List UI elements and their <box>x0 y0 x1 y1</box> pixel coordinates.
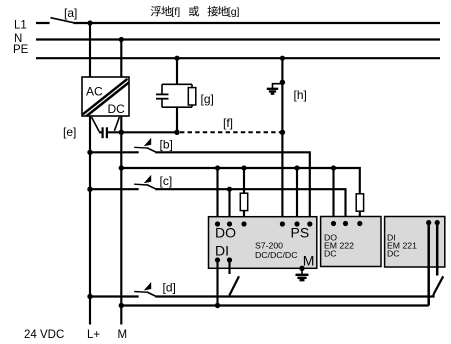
svg-text:[a]: [a] <box>64 6 77 20</box>
resistor R2 <box>356 194 363 211</box>
switch [c] <box>134 175 155 189</box>
svg-text:[f]: [f] <box>171 6 180 18</box>
DI input switch blade <box>229 276 239 295</box>
svg-text:DC: DC <box>387 249 400 259</box>
wire RC to f node <box>176 107 178 132</box>
node f right <box>280 130 285 135</box>
svg-text:AC: AC <box>86 85 103 99</box>
wire PE bus <box>36 57 440 59</box>
svg-text:M: M <box>303 252 315 268</box>
PSU AC/DC converter box U1 <box>82 77 129 116</box>
wire L1 to PSU <box>89 23 91 77</box>
box1 terminal dots <box>215 221 220 226</box>
PLC box1 S7-200 <box>209 217 317 269</box>
PLC box3 EM221 <box>385 217 445 268</box>
DI input switch stub <box>228 260 230 274</box>
wire [c] to EM222 <box>90 189 346 223</box>
switch [b] <box>134 138 155 152</box>
node M bottom <box>119 303 124 308</box>
branch DO1 <box>215 165 220 170</box>
node f left <box>174 130 179 135</box>
node PE junction h <box>280 56 285 61</box>
svg-text:[c]: [c] <box>160 174 173 188</box>
box3 DI wires <box>429 223 438 306</box>
svg-text:L1: L1 <box>14 20 27 32</box>
box3 terminal dots <box>426 220 431 225</box>
svg-text:[b]: [b] <box>160 138 173 152</box>
dashed link [f] <box>180 131 282 133</box>
svg-text:[d]: [d] <box>163 281 176 295</box>
switch [d] <box>134 282 155 296</box>
wire [b] to PS <box>90 152 310 224</box>
wire M mid to PS <box>121 168 359 224</box>
svg-text:PE: PE <box>13 44 29 56</box>
svg-text:L+: L+ <box>87 329 100 341</box>
svg-text:DI: DI <box>215 242 229 258</box>
node DI drop junction <box>215 303 220 308</box>
svg-text:DC/DC/DC: DC/DC/DC <box>255 250 297 260</box>
branch fused R1 <box>241 165 246 170</box>
wire L+ rail <box>89 116 91 325</box>
wire M rail <box>120 116 122 325</box>
node cap to M rail <box>119 130 124 135</box>
node L1 junction <box>87 20 92 25</box>
node PE junction g <box>174 56 179 61</box>
svg-text:PS: PS <box>291 224 310 240</box>
wire N to PSU <box>120 40 122 78</box>
svg-text:[g]: [g] <box>228 6 240 18</box>
RC snubber [g] <box>162 84 192 107</box>
wire M bottom to EM221 <box>121 304 428 306</box>
node mid on M rail <box>119 165 124 170</box>
svg-text:[f]: [f] <box>223 116 233 130</box>
wire cap node to g node <box>121 131 177 133</box>
header text floating-ground CJK <box>151 6 228 16</box>
wire L1 bus <box>36 22 440 24</box>
EM221 input switch blade <box>434 276 444 294</box>
box2 terminal dots <box>331 221 336 226</box>
resistor R1 <box>240 193 247 210</box>
switch [a] <box>51 18 75 23</box>
svg-text:DO: DO <box>215 224 236 240</box>
branch EM222 DO <box>331 165 336 170</box>
svg-text:[h]: [h] <box>294 88 307 102</box>
ground [h] <box>273 84 283 88</box>
svg-text:[g]: [g] <box>201 92 214 106</box>
wire L+ bottom [d] <box>90 294 434 297</box>
svg-text:24 VDC: 24 VDC <box>24 329 64 341</box>
wire N bus <box>36 38 440 40</box>
M ground node under box1 <box>299 266 304 271</box>
branch PS2 <box>294 165 299 170</box>
branch DO2 from c wire <box>227 187 232 192</box>
node b on L+ rail <box>87 150 92 155</box>
capacitor C[e] <box>92 117 120 132</box>
svg-text:S7-200: S7-200 <box>255 240 283 250</box>
svg-text:DC: DC <box>108 102 126 116</box>
node N junction <box>119 37 124 42</box>
wire PE to RC network <box>176 58 178 84</box>
svg-text:[e]: [e] <box>63 125 76 139</box>
PLC box2 EM222 <box>321 217 381 267</box>
node d on L+ rail <box>87 294 92 299</box>
svg-text:M: M <box>118 329 128 341</box>
svg-text:DC: DC <box>324 249 337 259</box>
wire PE drop to PS terminal <box>281 58 283 224</box>
DI drop 1 to M wire <box>216 260 218 306</box>
node c on L+ rail <box>87 187 92 192</box>
ground M <box>301 268 303 274</box>
node h branch <box>280 80 285 85</box>
